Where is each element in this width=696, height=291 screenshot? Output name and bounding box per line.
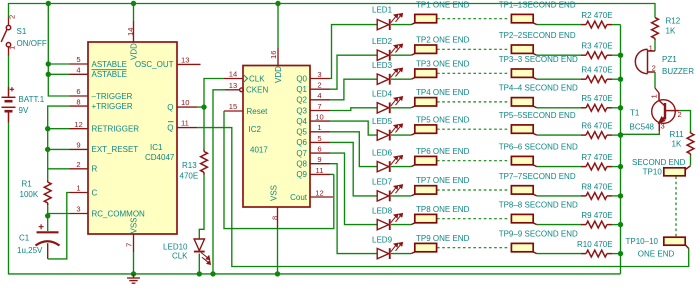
wire: TP8-8 to R9 [537,224,581,226]
wire: battery negative to ground bus [9,123,621,274]
svg-text:TP8–8 SECOND END: TP8–8 SECOND END [499,201,578,210]
svg-text:2: 2 [652,64,656,73]
svg-text:R11: R11 [670,130,685,139]
svg-text:TP6 ONE END: TP6 ONE END [416,147,470,156]
svg-text:R9 470E: R9 470E [581,211,612,220]
pin 9 of IC1 (EXT_RESET) [70,148,89,150]
pin 6 of IC1 (-TRIGGER) [70,95,89,97]
svg-text:7: 7 [125,243,134,247]
svg-text:LED1: LED1 [372,5,393,14]
svg-text:BC548: BC548 [630,123,655,132]
svg-text:2: 2 [76,160,80,169]
wire: R9 to base bus [612,224,621,226]
svg-text:CKEN: CKEN [246,86,268,95]
wire: LED8 to TP8 [391,224,411,226]
LED3 [377,68,402,85]
node: junction pin12 [45,126,50,131]
battery BATT.1 9V [2,87,16,123]
svg-text:TP1 ONE END: TP1 ONE END [416,1,470,10]
LED4 [377,97,402,114]
wire: Q3 to LED4 row [330,108,377,111]
test point TP2 ONE END [411,45,436,55]
svg-text:11: 11 [316,166,324,175]
svg-text:LED10: LED10 [163,243,188,252]
svg-text:R12: R12 [666,17,681,26]
resistor R3 470E [586,52,607,59]
wire: cable dashed link TP10 [675,177,677,237]
svg-text:Q9: Q9 [296,170,307,179]
svg-text:TP3–3 SECOND END: TP3–3 SECOND END [499,55,578,64]
wire: Reset to Q9 loop [224,111,334,229]
node: junction pin4 [46,72,51,77]
svg-text:1: 1 [317,123,321,132]
svg-text:1: 1 [76,184,80,193]
wire: R2 to base bus [612,24,621,26]
svg-text:Q: Q [167,103,173,112]
svg-text:R13: R13 [182,161,197,170]
wire: R10 to base bus [612,253,621,255]
svg-text:CD4047: CD4047 [145,153,175,162]
svg-text:Cout: Cout [290,193,308,202]
svg-text:LED8: LED8 [372,206,393,215]
svg-text:2: 2 [8,15,17,19]
svg-text:+TRIGGER: +TRIGGER [92,102,133,111]
wire: Qbar pin11 across bottom to TP10-10 [197,128,689,267]
test point TP5-5 SECOND END [511,125,536,135]
wire: RC_COMMON pin3 to junction [48,213,70,215]
svg-text:TP9–9 SECOND END: TP9–9 SECOND END [499,230,578,239]
svg-text:CLK: CLK [172,252,188,261]
svg-text:470E: 470E [180,172,199,181]
svg-text:9V: 9V [19,106,29,115]
node: CKEN ground junction [210,271,215,276]
svg-text:1: 1 [649,43,653,52]
svg-text:Q8: Q8 [296,160,307,169]
wire: LED6 to TP6 [391,166,411,168]
wire: cable dashed link row 8 [437,218,508,220]
wire: R5 to base bus [612,107,621,109]
wire: TP3-3 to R4 [537,78,581,80]
svg-text:5: 5 [76,55,80,64]
resistor R8 470E [586,193,607,200]
pin 15 of IC2 (Reset) [224,110,243,112]
wire: LED10 cathode to ground bus [198,254,200,274]
test point TP8-8 SECOND END [511,214,536,224]
node: bus junction row 9 [618,251,623,256]
test point TP6 ONE END [411,156,436,166]
svg-text:1u,25V: 1u,25V [17,246,43,255]
svg-text:VSS: VSS [270,185,279,201]
svg-text:LED4: LED4 [372,90,393,99]
svg-text:OSC_OUT: OSC_OUT [135,60,174,69]
test point TP3-3 SECOND END [511,69,536,79]
resistor R13 470E [201,152,208,173]
resistor R10 470E [586,250,607,257]
node: bus junction row 8 [618,222,623,227]
svg-text:C: C [92,188,98,197]
pin 4 of IC2 (Q2) [310,99,330,101]
resistor R4 470E [586,76,607,83]
wire: R7 to base bus [612,166,621,168]
wire: S1 to battery [8,56,10,88]
resistor R5 470E [586,104,607,111]
svg-text:Q5: Q5 [296,128,307,137]
wire: C1 bottom loop to IC1 pin1 C [48,193,70,259]
svg-text:VDD: VDD [274,66,283,83]
wire: TP9-9 to R10 [537,253,581,255]
node: rail junction IC2 VDD [275,1,280,6]
svg-text:16: 16 [269,51,278,59]
svg-text:1K: 1K [666,27,676,36]
buzzer PZ1 [635,49,655,73]
node: junction pin9 [45,147,50,152]
wire: Q9 to Reset vertical [330,173,334,175]
node: junction Q/R13 [201,104,206,109]
wire: cable dashed link row 9 [437,247,508,249]
svg-text:14: 14 [229,70,237,79]
svg-text:11: 11 [181,119,189,128]
pin 10 of IC1 (Q) [177,106,197,108]
pin 16 of IC2 (VDD) [277,4,279,49]
svg-text:TP4 ONE END: TP4 ONE END [416,88,470,97]
test point TP4 ONE END [411,98,436,108]
svg-text:R10 470E: R10 470E [577,240,613,249]
wire: cable dashed link row 2 [437,48,508,50]
wire: VDD bus to IC1 pins 5,4,6 [48,4,69,97]
svg-text:LED7: LED7 [372,178,393,187]
pin 1 of IC2 (Q5) [310,131,330,133]
pin 2 of IC2 (Q1) [310,88,330,90]
svg-text:TP2–2SECOND END: TP2–2SECOND END [499,31,576,40]
test point TP10-10 ONE END [664,237,689,248]
LED9 [377,243,402,260]
wire: LED9 to TP9 [391,253,411,255]
svg-text:PZ1: PZ1 [662,55,677,64]
svg-text:C1: C1 [19,234,30,243]
svg-text:TP1–1SECOND END: TP1–1SECOND END [499,1,576,10]
wire: TP5-5 to R6 [537,134,581,136]
svg-text:R2 470E: R2 470E [581,11,612,20]
LED2 [377,44,402,61]
svg-text:R5 470E: R5 470E [581,94,612,103]
svg-text:10: 10 [181,98,189,107]
wire: cable dashed link row 4 [437,101,508,103]
wire: R13 to LED10 [199,175,204,240]
LED1 [377,14,402,31]
svg-text:1K: 1K [672,140,682,149]
svg-text:TP7 ONE END: TP7 ONE END [416,176,470,185]
svg-text:ON/OFF: ON/OFF [17,39,47,48]
node: junction pin5 [46,61,51,66]
wire: TP7-7 to R8 [537,195,581,197]
svg-text:IC1: IC1 [150,143,163,152]
node: VSS junction on ground bus [131,271,136,276]
pin 5 of IC1 (ASTABLE) [70,63,89,65]
pin 1 of IC1 (C) [70,192,89,194]
svg-text:5: 5 [317,134,321,143]
resistor R7 470E [586,163,607,170]
node: junction R1/C1/RC_COMMON [45,213,50,218]
test point TP4-4 SECOND END [511,98,536,108]
svg-text:LED2: LED2 [372,37,393,46]
test point TP2-2 SECOND END [511,45,536,55]
svg-text:LED5: LED5 [372,117,393,126]
wire: R11 to TP10 [690,155,692,165]
wire: Q pin10 to CLK and R13 [197,79,224,108]
svg-text:14: 14 [126,28,135,36]
svg-text:4: 4 [76,66,80,75]
svg-text:TP6–6 SECOND END: TP6–6 SECOND END [499,143,578,152]
wire: LED5 to TP5 [391,134,411,136]
svg-text:S1: S1 [17,27,27,36]
svg-text:R: R [92,165,98,174]
svg-text:BATT.1: BATT.1 [19,95,45,104]
svg-text:2: 2 [678,110,682,119]
pin 5 of IC2 (Q6) [310,141,330,143]
svg-text:VDD: VDD [130,43,139,60]
svg-text:ASTABLE: ASTABLE [92,60,127,69]
pin 12 of IC2 (Cout) [310,196,333,198]
svg-text:R1: R1 [22,180,33,189]
wire: R6 to base bus [612,134,621,136]
svg-text:12: 12 [74,120,82,129]
svg-text:BUZZER: BUZZER [662,67,694,76]
pin 2 of IC1 (R) [70,168,89,170]
capacitor C1 1u,25V [36,224,60,259]
LED7 [377,185,402,202]
svg-text:TP10: TP10 [643,167,663,176]
pin 14 of IC1 (VDD) [133,4,135,22]
pin 4 of IC1 (ASTABLE) [70,73,89,75]
svg-text:Q6: Q6 [296,138,307,147]
node: base bus tap [618,132,623,137]
pin 14 of IC2 (CLK) [224,78,243,80]
pin 8 of IC2 (VSS) [277,207,279,228]
LED10 CLK [194,239,211,264]
svg-text:6: 6 [317,144,321,153]
resistor R2 470E [586,21,607,28]
wire: LED7 to TP7 [391,195,411,197]
wire: cable dashed link row 6 [437,160,508,162]
wire: TP2-2 to R3 [537,54,581,56]
node: IC2 VSS ground junction [275,271,280,276]
svg-text:Q2: Q2 [296,96,307,105]
svg-text:3: 3 [661,122,665,131]
pin 13 of IC2 (CKEN) [225,89,240,91]
svg-text:9: 9 [76,141,80,150]
svg-text:TP4–4 SECOND END: TP4–4 SECOND END [499,84,578,93]
wire: Q5 to LED6 row [330,132,377,167]
wire: LED2 to TP2 [391,54,411,56]
wire: IC1 pins 8,12,9,2 bus down to R1 [48,106,70,180]
op-amp/IC U1: IC1 CD4047 body [88,42,177,234]
test point TP1-1 SECOND END [511,14,536,24]
svg-text:15: 15 [229,102,237,111]
svg-text:4: 4 [317,91,321,100]
svg-text:1: 1 [8,46,17,50]
svg-text:Q3: Q3 [296,106,307,115]
pin 7 of IC1 (VSS) [133,234,135,252]
wire: Q0 to LED1 row [330,25,377,79]
pin 8 of IC1 (+TRIGGER) [70,105,89,107]
wire: Q8 to LED9 row [330,164,377,254]
wire: R8 to base bus [612,195,621,197]
svg-text:10: 10 [315,113,323,122]
wire: R4 to base bus [612,78,621,80]
wire: R3 to base bus [612,54,621,56]
svg-text:CLK: CLK [249,74,265,83]
svg-text:R8 470E: R8 470E [581,182,612,191]
svg-text:RETRIGGER: RETRIGGER [92,125,140,134]
svg-text:RC_COMMON: RC_COMMON [92,209,146,218]
pin 11 of IC2 (Q9) [310,173,330,175]
svg-text:TP5 ONE END: TP5 ONE END [416,115,470,124]
node: bus junction row 7 [618,193,623,198]
svg-text:9: 9 [317,155,321,164]
wire: LED3 to TP3 [391,78,411,80]
svg-text:Q4: Q4 [296,117,307,126]
pin 12 of IC1 (RETRIGGER) [70,128,89,130]
wire: R12 to buzzer pin1 [654,40,656,51]
wire: cable dashed link row 7 [437,189,508,191]
svg-text:R4 470E: R4 470E [581,66,612,75]
IC U2: IC2 4017 body [243,66,310,208]
pin 11 of IC1 (Qbar) [177,127,197,129]
wire: TP4-4 to R5 [537,107,581,109]
node: rail junction IC1 VDD [131,1,136,6]
svg-text:TP2 ONE END: TP2 ONE END [416,36,470,45]
pin 9 of IC2 (Q8) [310,163,330,165]
wire: T1 emitter to resistor bus [621,131,660,134]
svg-text:Reset: Reset [247,107,269,116]
resistor R11 1K [687,133,694,154]
svg-text:TP8 ONE END: TP8 ONE END [416,205,470,214]
svg-text:13: 13 [181,55,189,64]
svg-text:100K: 100K [20,190,39,199]
wire: R1 to C1 [47,205,49,231]
wire: LED1 to TP1 [391,24,411,26]
pin 6 of IC2 (Q7) [310,152,330,154]
wire: common resistor bus [620,25,622,274]
node: bus junction row 5 [618,132,623,137]
resistor R12 1K [654,16,656,18]
svg-text:2: 2 [317,81,321,90]
svg-text:13: 13 [229,81,237,90]
pin 3 of IC1 (RC_COMMON) [70,213,89,215]
wire: cable dashed link row 3 [437,72,508,74]
pin 13 of IC1 (OSC_OUT) [177,63,201,65]
wire: cable dashed link row 5 [437,128,508,130]
test point TP5 ONE END [411,125,436,135]
svg-text:3: 3 [76,205,80,214]
node: bus junction row 4 [618,105,623,110]
ground symbol [127,274,140,283]
svg-text:6: 6 [76,87,80,96]
test point TP7-7 SECOND END [511,186,536,196]
test point TP6-6 SECOND END [511,156,536,166]
wire: T1 base to R11 [679,111,691,133]
switch S1 ON/OFF [1,18,11,56]
transistor T1 BC548 [652,93,679,131]
node: rail junction at left bus [46,1,51,6]
wire: Q2 to LED3 row [330,79,377,100]
svg-text:–TRIGGER: –TRIGGER [92,92,133,101]
svg-text:12: 12 [315,188,323,197]
test point TP8 ONE END [411,214,436,224]
svg-text:1: 1 [650,94,659,98]
svg-text:3: 3 [317,70,321,79]
node: bus junction row 6 [618,164,623,169]
pin 3 of IC2 (Q0) [310,78,330,80]
wire: buzzer to T1 collector [654,72,656,88]
svg-text:ONE END: ONE END [638,250,675,259]
svg-text:Q1: Q1 [296,85,307,94]
svg-text:TP5–5SECOND END: TP5–5SECOND END [499,111,576,120]
LED8 [377,214,402,231]
test point TP7 ONE END [411,186,436,196]
test point TP3 ONE END [411,69,436,79]
resistor R9 470E [586,221,607,228]
svg-text:7: 7 [317,102,321,111]
svg-text:TP9 ONE END: TP9 ONE END [416,234,470,243]
svg-text:LED9: LED9 [372,235,393,244]
wire: Q6 to LED7 row [330,142,377,196]
svg-text:8: 8 [271,216,280,220]
svg-text:4017: 4017 [250,146,268,155]
svg-text:LED3: LED3 [372,61,393,70]
node: bus junction row 3 [618,77,623,82]
wire: Q7 to LED8 row [330,153,377,225]
wire: Q1 to LED2 row [330,55,377,89]
wire: VDD top rail [9,4,656,19]
svg-text:Q7: Q7 [296,149,307,158]
svg-text:T1: T1 [630,108,640,117]
svg-text:Q: Q [167,123,173,132]
wire: Q4 to LED5 row [330,121,377,135]
svg-text:TP7–7SECOND END: TP7–7SECOND END [499,172,576,181]
test point TP9-9 SECOND END [511,243,536,253]
svg-text:ASTABLE: ASTABLE [92,70,127,79]
svg-text:TP10–10: TP10–10 [626,237,659,246]
svg-text:R3 470E: R3 470E [581,42,612,51]
wire: TP6-6 to R7 [537,166,581,168]
pin 7 of IC2 (Q3) [310,110,330,112]
svg-text:Q0: Q0 [296,74,307,83]
test point TP9 ONE END [411,243,436,253]
test point TP1 ONE END [411,14,436,24]
svg-text:SECOND END: SECOND END [632,158,686,167]
wire: cable dashed link row 1 [437,18,508,20]
pin 10 of IC2 (Q4) [310,120,330,122]
wire: TP1-1 to R2 [537,24,581,26]
wire: CKEN to ground [213,90,225,274]
svg-text:TP3 ONE END: TP3 ONE END [416,60,470,69]
LED5 [377,124,402,140]
svg-text:VSS: VSS [130,217,139,233]
svg-text:R6 470E: R6 470E [581,122,612,131]
resistor R1 [44,182,51,203]
svg-text:LED6: LED6 [372,148,393,157]
node: bus junction row 2 [618,53,623,58]
svg-text:R7 470E: R7 470E [581,153,612,162]
wire: LED4 to TP4 [391,107,411,109]
svg-text:IC2: IC2 [249,125,262,134]
svg-text:8: 8 [76,97,80,106]
svg-text:EXT_RESET: EXT_RESET [92,145,139,154]
resistor R6 470E [586,132,607,139]
LED6 [377,156,402,173]
test point TP10 SECOND END [664,166,691,176]
